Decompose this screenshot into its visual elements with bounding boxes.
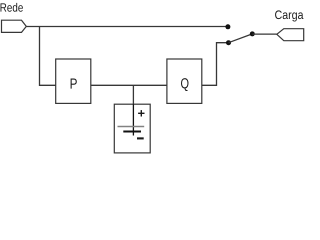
junction: switch pole C <box>250 31 255 36</box>
wire: Rede to switch contact A (top bus) <box>26 26 228 28</box>
node Carga (flag symbol) <box>277 29 304 41</box>
battery lead (stem) <box>132 104 134 135</box>
battery box <box>114 104 150 153</box>
wire: Q output up to switch lower contact <box>202 43 229 86</box>
node label Carga (text) <box>275 10 303 21</box>
battery polarity - <box>137 137 144 139</box>
battery negative plate (short) <box>123 131 141 133</box>
label P <box>71 79 77 89</box>
label Q <box>181 78 189 91</box>
wire: switch pole to Carga <box>252 33 276 35</box>
converter block Q <box>167 59 202 103</box>
converter block P <box>56 59 91 103</box>
switch blade <box>229 34 253 43</box>
node label Rede (text) <box>0 3 22 12</box>
junction: switch fixed contact B (Q side) <box>226 40 231 45</box>
junction: switch fixed contact A (Rede side, open) <box>225 24 230 29</box>
wire: battery tap from DC bus <box>132 85 134 104</box>
wire: DC bus P to Q <box>91 84 167 86</box>
battery positive plate (long) <box>118 126 145 128</box>
battery polarity + <box>138 110 144 116</box>
wire: vertical drop from top bus to P input <box>40 27 56 86</box>
node Rede (flag symbol) <box>2 20 27 32</box>
